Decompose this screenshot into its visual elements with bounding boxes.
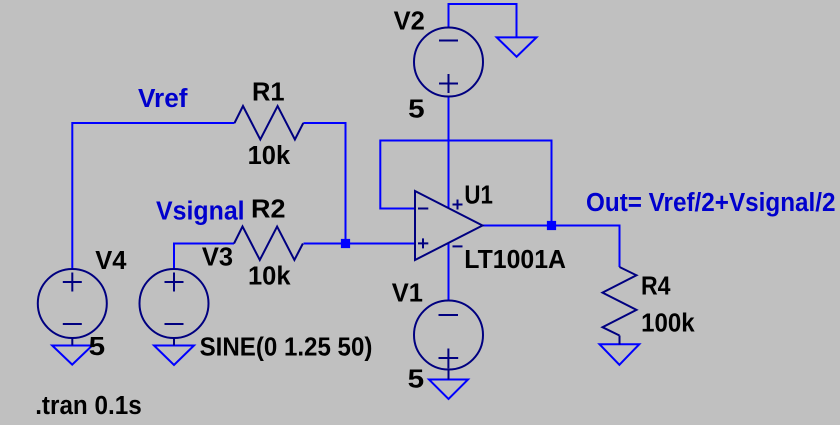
svg-text:LT1001A: LT1001A	[464, 246, 566, 274]
svg-text:.tran 0.1s: .tran 0.1s	[35, 392, 142, 420]
svg-text:V2: V2	[394, 8, 425, 36]
svg-text:Vref: Vref	[138, 85, 188, 113]
svg-text:V3: V3	[202, 243, 233, 271]
svg-text:5: 5	[408, 366, 425, 394]
svg-text:10k: 10k	[248, 142, 291, 170]
svg-text:U1: U1	[464, 182, 493, 210]
svg-text:SINE(0 1.25 50): SINE(0 1.25 50)	[200, 334, 373, 362]
svg-text:V1: V1	[392, 280, 423, 308]
svg-text:5: 5	[408, 96, 425, 124]
svg-text:Vsignal: Vsignal	[156, 198, 245, 226]
svg-text:R2: R2	[251, 196, 286, 224]
svg-text:V4: V4	[95, 247, 127, 275]
svg-text:5: 5	[89, 333, 106, 361]
svg-text:100k: 100k	[641, 310, 695, 338]
svg-text:Out= Vref/2+Vsignal/2: Out= Vref/2+Vsignal/2	[586, 189, 836, 217]
svg-text:R1: R1	[252, 79, 285, 107]
svg-text:10k: 10k	[248, 263, 291, 291]
svg-text:R4: R4	[641, 273, 671, 301]
